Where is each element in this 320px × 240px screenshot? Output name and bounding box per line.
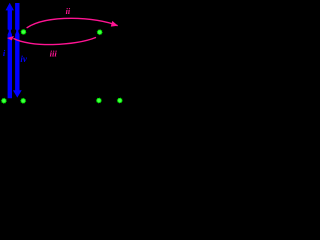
green atom dot bottom 4: [117, 97, 123, 103]
svg-text:ii: ii: [66, 7, 71, 16]
green atom dot bottom 1: [1, 98, 7, 104]
green atom dot mid-right: [97, 29, 103, 35]
green atom dot mid-left: [20, 29, 26, 35]
curve iii (lower magenta arc): [13, 37, 96, 44]
green atom dot bottom 3: [96, 97, 102, 103]
svg-text:iii: iii: [50, 49, 58, 59]
svg-text:iv: iv: [20, 54, 28, 64]
arrowhead of curve ii: [111, 21, 118, 27]
green atom dot bottom 2: [20, 98, 26, 104]
blue down arrow iv (right bar): [13, 3, 22, 98]
blue up arrow i (left bar): [6, 3, 15, 99]
arrowhead of curve iii: [7, 36, 14, 40]
background: [0, 0, 139, 124]
curve ii (upper magenta arc): [27, 18, 118, 28]
